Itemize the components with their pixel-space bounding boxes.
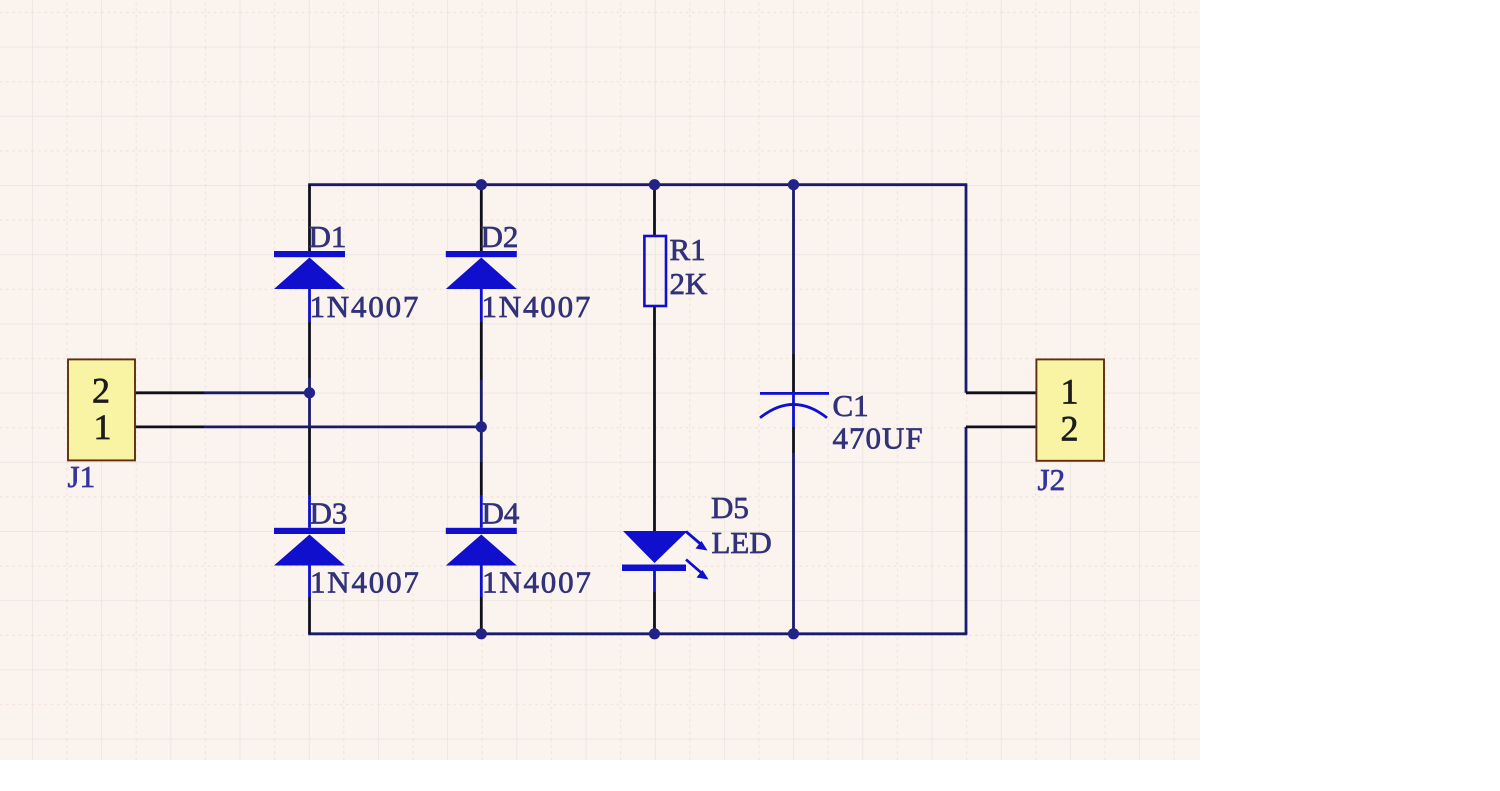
wire J1 pin1 stub <box>135 425 204 428</box>
svg-text:2K: 2K <box>670 266 709 301</box>
resistor R1 <box>644 236 666 306</box>
wire branch3 lower <box>653 592 656 634</box>
svg-text:1N4007: 1N4007 <box>482 289 593 324</box>
wire branch3 R1 to D5 <box>653 306 656 531</box>
wire J1 pin2 stub <box>135 391 204 394</box>
svg-text:J2: J2 <box>1038 462 1066 497</box>
wire branch1 to D3 <box>308 428 311 495</box>
wire branch4 lower <box>792 453 795 634</box>
junction bottom-D5 <box>649 628 660 639</box>
wire branch2 upper <box>480 185 483 252</box>
sheet background <box>0 0 1200 760</box>
junction J1pin2-branch1 <box>304 387 315 398</box>
svg-text:D3: D3 <box>310 496 348 531</box>
svg-text:C1: C1 <box>833 388 869 423</box>
svg-text:1N4007: 1N4007 <box>310 564 421 599</box>
svg-text:1: 1 <box>1061 372 1079 412</box>
diode D4 <box>446 495 517 597</box>
junction bottom-C1 <box>788 628 799 639</box>
svg-text:D1: D1 <box>309 219 347 254</box>
svg-text:2: 2 <box>1061 409 1079 449</box>
svg-text:D5: D5 <box>711 490 749 525</box>
connector J1 <box>68 359 135 460</box>
wire branch4 upper <box>792 185 795 354</box>
connector J2 <box>1036 359 1104 460</box>
wire branch5 lower <box>965 427 968 634</box>
wire J1 pin1 to bridge <box>204 425 483 428</box>
junction bottom-D4 <box>476 628 487 639</box>
junction top-R1 <box>649 179 660 190</box>
svg-text:J1: J1 <box>68 459 96 494</box>
svg-text:LED: LED <box>712 525 772 560</box>
wire branch1 D1 to junction <box>308 322 311 378</box>
svg-text:1N4007: 1N4007 <box>482 564 593 599</box>
svg-text:1N4007: 1N4007 <box>310 289 421 324</box>
svg-text:470UF: 470UF <box>833 421 924 456</box>
wire branch1 junction area <box>308 378 311 428</box>
junction J1pin1-branch2 <box>476 421 487 432</box>
svg-text:1: 1 <box>94 407 112 447</box>
wire branch1 lower <box>308 597 311 634</box>
wire branch4 upper dark segment <box>792 354 795 392</box>
svg-text:D4: D4 <box>482 496 520 531</box>
diode D1 <box>274 251 345 322</box>
wire branch2 to D4 <box>480 462 483 495</box>
wire J1 pin2 to bridge <box>204 391 311 394</box>
junction top-C1 <box>788 179 799 190</box>
svg-text:D2: D2 <box>481 219 519 254</box>
svg-text:R1: R1 <box>670 232 706 267</box>
capacitor C1 <box>760 392 829 427</box>
wire branch2 D2 to junction <box>480 322 483 380</box>
diode D3 <box>274 495 345 597</box>
wire branch5 upper <box>965 185 968 393</box>
wire J2 pin2 stub <box>966 425 1036 428</box>
junction top-D2 <box>476 179 487 190</box>
wire branch2 junction area <box>480 380 483 462</box>
svg-text:2: 2 <box>92 370 110 410</box>
wire bottom bus <box>308 632 967 635</box>
wire branch1 upper <box>308 185 311 252</box>
wire branch3 upper <box>653 185 656 236</box>
wire top bus <box>308 183 967 186</box>
wire J2 pin1 stub <box>966 391 1036 394</box>
LED D5 <box>622 531 709 592</box>
wire branch2 lower <box>480 597 483 634</box>
wire branch4 lower dark segment <box>792 427 795 453</box>
diode D2 <box>446 251 517 322</box>
